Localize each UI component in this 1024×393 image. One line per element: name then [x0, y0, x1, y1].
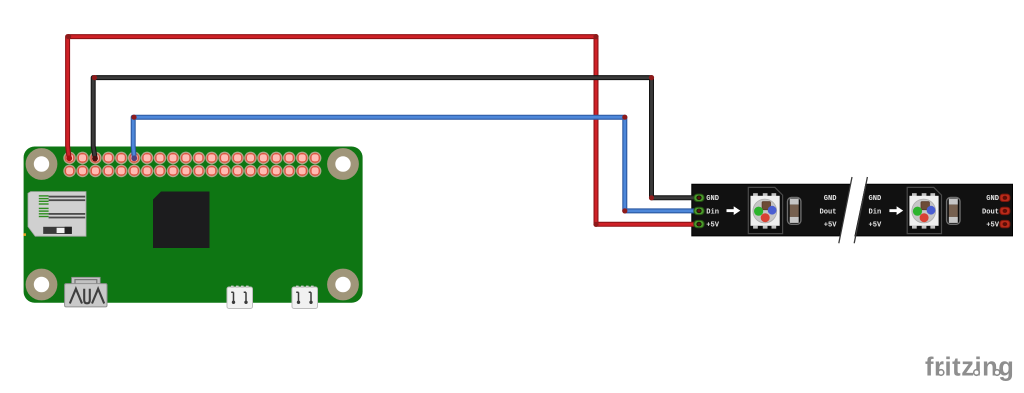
wire blue Din: Pi pin6 up, across, down, into strip Din: [133, 117, 699, 211]
svg-text:GND: GND: [824, 195, 837, 203]
capacitor C1 (bypass cap on strip): [788, 198, 801, 225]
Raspberry Pi Zero board PCB: [24, 147, 363, 303]
segment 2 output pad Dout: [1000, 207, 1010, 214]
wire end dot at strip pad +5V: [697, 223, 700, 226]
svg-text:+5V: +5V: [869, 222, 883, 230]
segment 1 direction arrow: [727, 206, 741, 215]
WS2812 LED package segment 1: [748, 187, 782, 233]
GPIO header J8 2x20 pins: [63, 152, 321, 178]
wire end dot at strip pad Din: [697, 209, 700, 212]
wire end dot blue at Pi pin6: [131, 155, 137, 161]
wire red +5V: Pi pin1 up, across top, down, into strip +5V: [68, 37, 699, 225]
svg-text:GND: GND: [869, 195, 882, 203]
segment 2 output pad GND: [1000, 194, 1010, 201]
bendpoint red wire top-right: [593, 34, 598, 39]
wire end dot red at Pi pin1: [66, 155, 72, 161]
wire black GND: Pi pin3 up, across, down, into strip GND: [93, 78, 699, 198]
mounting hole bottom-left: [26, 269, 58, 301]
WS2812 LED package segment 2: [907, 187, 941, 233]
mounting hole bottom-right: [327, 269, 359, 301]
micro USB connector USB power: [292, 286, 318, 309]
bendpoint red wire lower: [593, 222, 598, 227]
SoC chip U1 (BCM2835): [153, 192, 210, 249]
LED strip segment 1 body: [692, 184, 851, 236]
LED strip segment 2 body: [855, 184, 1013, 236]
wire end dot black at Pi pin3: [92, 156, 98, 162]
fritzing logo node circles: [938, 370, 1000, 376]
svg-text:Din: Din: [869, 208, 882, 216]
strip cut slash 2: [854, 177, 867, 243]
svg-text:+5V: +5V: [824, 222, 838, 230]
svg-text:GND: GND: [986, 195, 999, 203]
bendpoint black wire top-right: [649, 75, 654, 80]
mounting hole top-left: [26, 148, 58, 180]
mini HDMI connector: [65, 277, 107, 307]
bendpoint black wire top-left: [92, 75, 97, 80]
mounting hole top-right: [327, 148, 359, 180]
svg-text:Dout: Dout: [982, 208, 999, 216]
segment 1 input pad +5V: [694, 220, 704, 227]
bendpoint black wire lower: [649, 195, 654, 200]
bendpoint blue wire lower: [622, 208, 627, 213]
capacitor C2 (bypass cap on strip): [947, 198, 960, 225]
micro USB connector USB data: [227, 286, 253, 309]
wire end dot at strip pad GND: [697, 196, 700, 199]
bendpoint blue wire top-right: [622, 115, 627, 120]
svg-text:+5V: +5V: [706, 222, 720, 230]
svg-text:GND: GND: [706, 195, 719, 203]
bendpoint blue wire top-left: [131, 115, 136, 120]
segment 2 output pad +5V: [1000, 220, 1010, 227]
segment 2 direction arrow: [889, 206, 903, 215]
segment 1 input pad Din: [694, 207, 704, 214]
segment 1 input pad GND: [694, 194, 704, 201]
microSD card slot: [23, 192, 86, 237]
svg-text:fritzing: fritzing: [925, 354, 1014, 382]
svg-text:+5V: +5V: [986, 222, 1000, 230]
strip cut slash 1: [839, 177, 852, 243]
svg-text:Dout: Dout: [819, 208, 836, 216]
bendpoint red wire top-left: [66, 34, 71, 39]
svg-text:Din: Din: [706, 208, 719, 216]
